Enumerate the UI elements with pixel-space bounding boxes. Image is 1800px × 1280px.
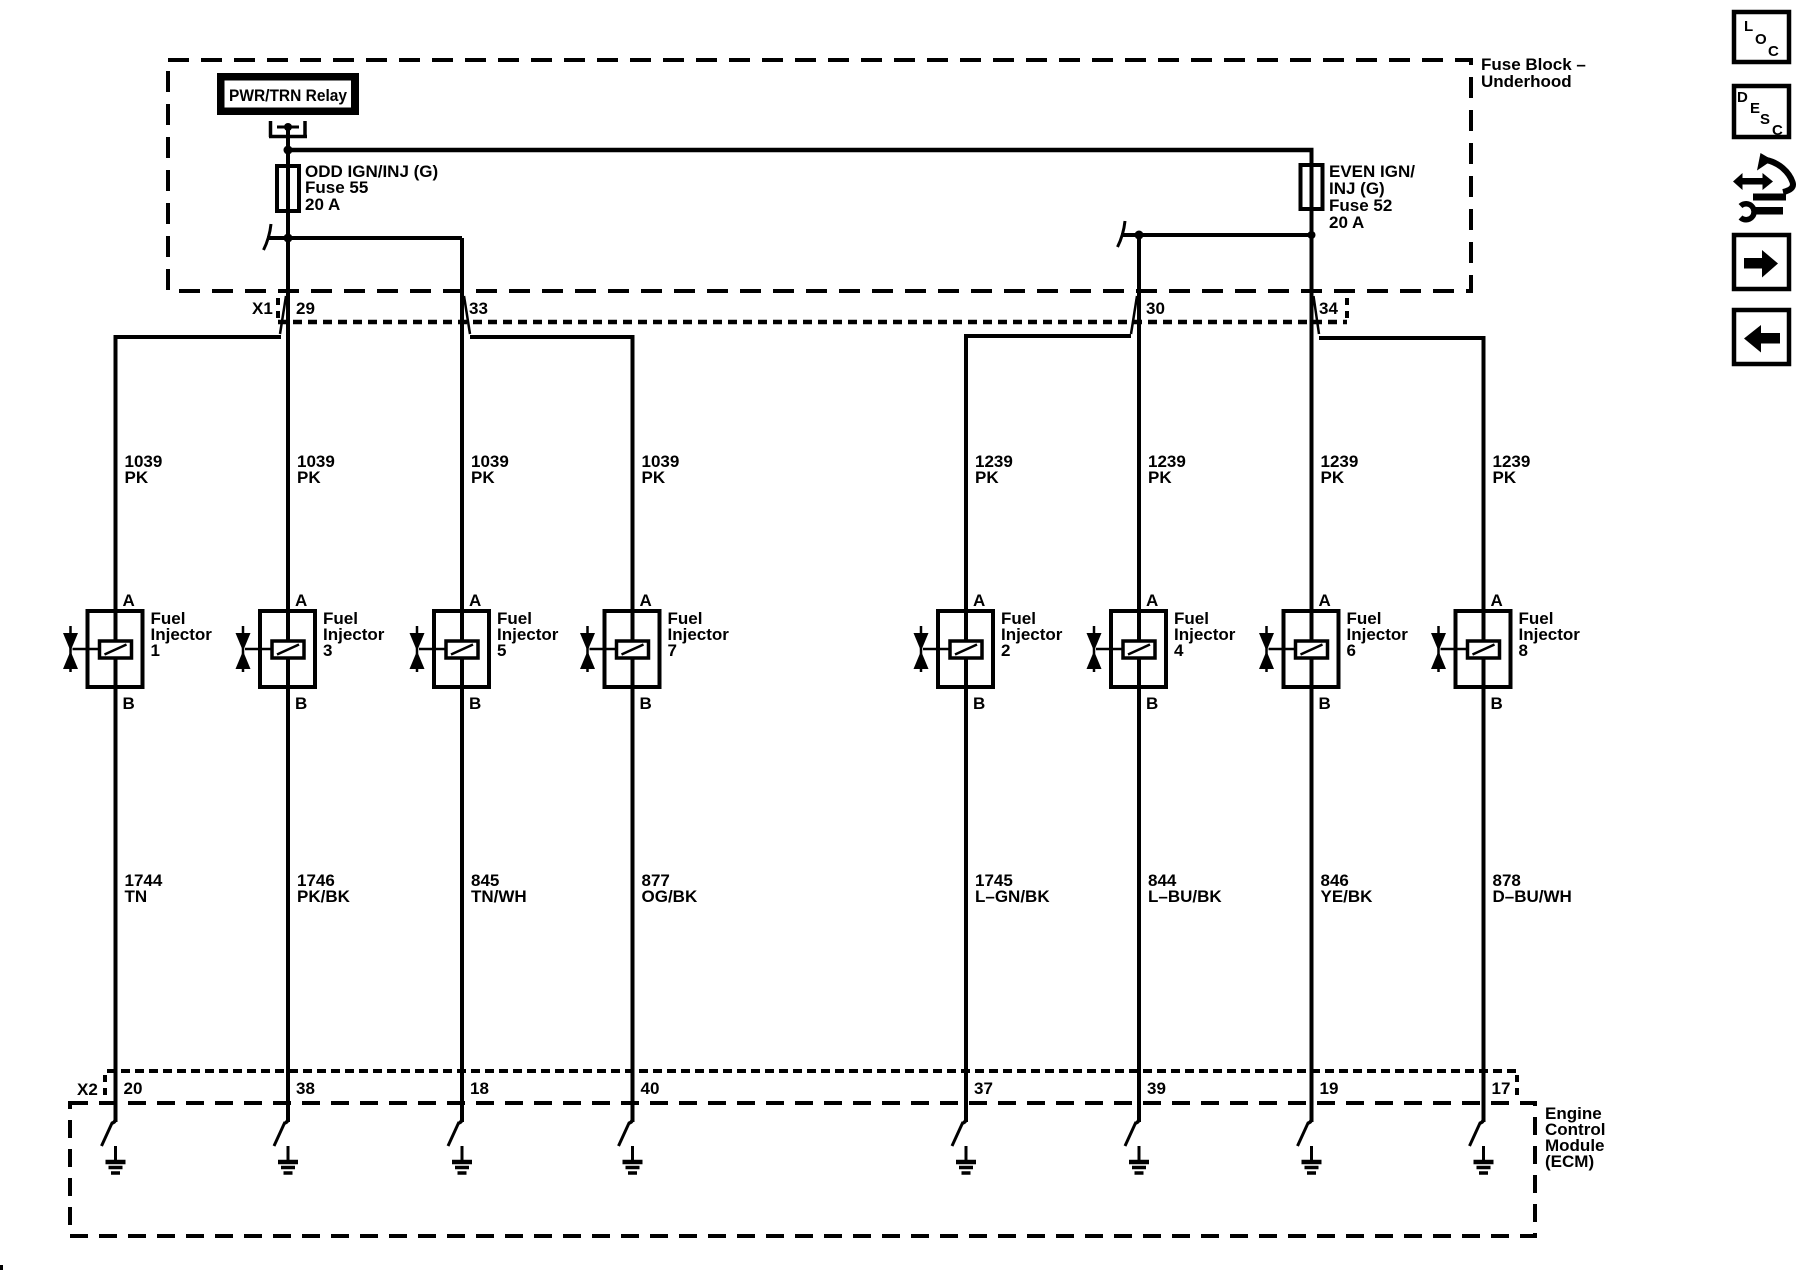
- svg-text:A: A: [469, 591, 481, 610]
- svg-text:B: B: [1319, 694, 1331, 713]
- svg-text:PK: PK: [1321, 468, 1345, 487]
- svg-text:B: B: [295, 694, 307, 713]
- svg-text:PK: PK: [1493, 468, 1517, 487]
- svg-text:A: A: [123, 591, 135, 610]
- svg-text:PK: PK: [125, 468, 149, 487]
- svg-text:(ECM): (ECM): [1545, 1152, 1594, 1171]
- svg-text:X2: X2: [77, 1080, 98, 1099]
- svg-text:O: O: [1755, 31, 1767, 48]
- svg-text:PK: PK: [1148, 468, 1172, 487]
- svg-text:E: E: [1750, 100, 1760, 117]
- svg-text:B: B: [973, 694, 985, 713]
- svg-text:B: B: [640, 694, 652, 713]
- svg-text:B: B: [1146, 694, 1158, 713]
- svg-text:PK: PK: [975, 468, 999, 487]
- svg-text:OG/BK: OG/BK: [642, 887, 698, 906]
- svg-text:8: 8: [1519, 641, 1528, 660]
- svg-text:2: 2: [1001, 641, 1010, 660]
- svg-text:B: B: [469, 694, 481, 713]
- svg-text:L–BU/BK: L–BU/BK: [1148, 887, 1222, 906]
- svg-text:7: 7: [668, 641, 677, 660]
- svg-text:B: B: [123, 694, 135, 713]
- svg-text:34: 34: [1319, 299, 1338, 318]
- svg-text:37: 37: [974, 1079, 993, 1098]
- svg-text:39: 39: [1147, 1079, 1166, 1098]
- svg-text:X1: X1: [252, 299, 273, 318]
- svg-text:6: 6: [1347, 641, 1356, 660]
- svg-text:A: A: [1146, 591, 1158, 610]
- svg-text:TN: TN: [125, 887, 148, 906]
- svg-text:30: 30: [1146, 299, 1165, 318]
- svg-text:29: 29: [296, 299, 315, 318]
- svg-text:A: A: [1319, 591, 1331, 610]
- svg-text:4: 4: [1174, 641, 1184, 660]
- svg-text:20: 20: [124, 1079, 143, 1098]
- svg-text:L: L: [1744, 18, 1753, 35]
- svg-text:PWR/TRN Relay: PWR/TRN Relay: [229, 86, 347, 105]
- svg-text:D–BU/WH: D–BU/WH: [1493, 887, 1572, 906]
- svg-text:L–GN/BK: L–GN/BK: [975, 887, 1050, 906]
- svg-text:A: A: [295, 591, 307, 610]
- svg-text:3: 3: [323, 641, 332, 660]
- svg-text:S: S: [1760, 111, 1770, 128]
- svg-text:Underhood: Underhood: [1481, 72, 1572, 91]
- svg-text:1: 1: [151, 641, 160, 660]
- svg-text:PK/BK: PK/BK: [297, 887, 351, 906]
- svg-text:TN/WH: TN/WH: [471, 887, 527, 906]
- svg-text:D: D: [1737, 89, 1748, 106]
- svg-text:33: 33: [469, 299, 488, 318]
- svg-text:PK: PK: [297, 468, 321, 487]
- svg-text:20 A: 20 A: [1329, 213, 1364, 232]
- svg-text:B: B: [1491, 694, 1503, 713]
- svg-text:C: C: [1768, 43, 1779, 60]
- svg-text:20 A: 20 A: [305, 195, 340, 214]
- svg-text:A: A: [973, 591, 985, 610]
- svg-text:A: A: [640, 591, 652, 610]
- svg-text:38: 38: [296, 1079, 315, 1098]
- svg-text:C: C: [1772, 122, 1783, 139]
- svg-text:5: 5: [497, 641, 506, 660]
- svg-text:A: A: [1491, 591, 1503, 610]
- svg-text:17: 17: [1492, 1079, 1511, 1098]
- svg-text:19: 19: [1320, 1079, 1339, 1098]
- svg-text:PK: PK: [642, 468, 666, 487]
- svg-text:18: 18: [470, 1079, 489, 1098]
- svg-text:40: 40: [641, 1079, 660, 1098]
- svg-text:YE/BK: YE/BK: [1321, 887, 1374, 906]
- svg-text:PK: PK: [471, 468, 495, 487]
